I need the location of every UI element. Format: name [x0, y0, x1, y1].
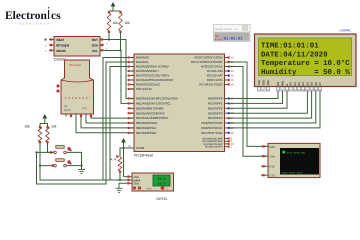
svg-text:D0: D0: [290, 82, 293, 86]
svg-text:35: 35: [130, 106, 134, 110]
svg-text:10k: 10k: [113, 21, 119, 25]
svg-text:23: 23: [231, 69, 235, 73]
wire SD pin to RB6: [81, 117, 128, 128]
DS3231 right pin stubs: [100, 37, 108, 52]
svg-text:25: 25: [231, 78, 235, 82]
svg-text:33: 33: [130, 97, 134, 101]
svg-text:RC2/CCP1/P1A: RC2/CCP1/P1A: [201, 65, 222, 69]
wire SD pin to RB4: [91, 117, 128, 119]
svg-text:39: 39: [130, 126, 134, 130]
svg-text:RC5/D+/VP: RC5/D+/VP: [207, 74, 223, 78]
svg-text:RA0/AN0: RA0/AN0: [136, 56, 149, 60]
microcontroller U1 PIC18F4550: [134, 54, 225, 158]
svg-text:01:01:01: 01:01:01: [224, 37, 244, 42]
svg-text:D6: D6: [315, 82, 318, 86]
svg-text:TIME:01:01:01: TIME:01:01:01: [261, 43, 319, 51]
svg-text:RA1/AN1: RA1/AN1: [136, 60, 149, 64]
wire DHT data to RA0: [103, 58, 128, 182]
svg-text:RA6/OSC2/CLKO: RA6/OSC2/CLKO: [136, 83, 161, 87]
wire button1 left to loop: [35, 151, 53, 153]
svg-text:RD4/SPP4: RD4/SPP4: [208, 116, 223, 120]
power +5V DHT: [121, 138, 126, 145]
svg-text:RA5/AN4/SS/LVDIN/C2OUT: RA5/AN4/SS/LVDIN/C2OUT: [136, 78, 174, 82]
svg-text:RC1/T1OSI/CCP2/UOE: RC1/T1OSI/CCP2/UOE: [191, 60, 223, 64]
svg-text:RE3/MCLR/VPP: RE3/MCLR/VPP: [205, 146, 223, 149]
svg-text:CTS: CTS: [270, 174, 275, 177]
svg-text:40: 40: [130, 131, 134, 135]
svg-text:30: 30: [231, 131, 235, 135]
svg-text:D4: D4: [306, 82, 309, 86]
svg-text:RD6/SPP6/P1C: RD6/SPP6/P1C: [201, 126, 223, 130]
svg-text:Humidity = 50.0 %: Humidity = 50.0 %: [261, 68, 350, 77]
wire button1 loop to RA1: [37, 62, 129, 184]
wire RST net to RB0: [104, 38, 128, 98]
power +5V top: [111, 2, 116, 9]
wire R1 bottom to RST net: [108, 31, 110, 40]
svg-text:RD5/SPP5/P1B: RD5/SPP5/P1B: [201, 121, 222, 125]
svg-text:Electron: Electron: [5, 10, 48, 22]
svg-text:24: 24: [231, 74, 235, 78]
svg-text:PIC18F4550: PIC18F4550: [134, 154, 153, 158]
wire LCD RS to RD0: [229, 91, 278, 99]
svg-text:Temperature = 10.0°C: Temperature = 10.0°C: [261, 59, 350, 68]
svg-text:VUSB: VUSB: [136, 146, 144, 150]
LCD LM044L display: [255, 34, 357, 87]
SD card activity LEDs: [57, 85, 60, 93]
svg-text:RTS: RTS: [270, 166, 275, 169]
wire R5 to DATA net: [120, 171, 127, 180]
wire LCD D6 to RD5: [229, 91, 316, 123]
svg-text:14: 14: [130, 83, 134, 87]
svg-text:DEVELOPER: DEVELOPER: [19, 22, 51, 26]
svg-text:10.0: 10.0: [157, 182, 165, 187]
wire LCD D5 to RD4: [229, 91, 312, 118]
svg-text:cs: cs: [51, 10, 61, 22]
svg-text:RC6/TX/CK: RC6/TX/CK: [207, 78, 223, 82]
push button S2: [51, 159, 71, 167]
wire power to R3 R4: [40, 121, 48, 127]
wire SD pin to RB7: [76, 117, 128, 133]
svg-text:RB7/KBI3/PGD: RB7/KBI3/PGD: [136, 131, 157, 135]
svg-text:RD3/SPP3: RD3/SPP3: [208, 111, 223, 115]
SD card J1: [61, 60, 94, 114]
svg-text:RA3/AN3/VREF+: RA3/AN3/VREF+: [136, 69, 159, 73]
wire SCL net to RB1: [104, 49, 128, 103]
svg-text:RST: RST: [92, 38, 98, 42]
LCD LM044L label: [340, 29, 352, 33]
DS3231 left pin stubs: [45, 38, 54, 52]
svg-text:RB6/KBI2/PGC: RB6/KBI2/PGC: [136, 126, 157, 130]
svg-text:10k: 10k: [125, 21, 131, 25]
wire SD pin to RB5: [86, 117, 128, 124]
svg-text:R568X PR08X-2N48X: R568X PR08X-2N48X: [282, 171, 304, 174]
wire RC1 to terminal RXD: [229, 62, 268, 146]
resistor R1 10k: [107, 11, 118, 33]
svg-text:RA2/AN2/VREF-/CVREF: RA2/AN2/VREF-/CVREF: [136, 65, 170, 69]
svg-text:RB3/AN9/CCP2/VPO: RB3/AN9/CCP2/VPO: [136, 111, 165, 115]
svg-text:36: 36: [130, 111, 134, 115]
svg-text:4.7k: 4.7k: [111, 158, 117, 162]
svg-text:VDD: VDD: [263, 80, 266, 86]
svg-text:VEE: VEE: [267, 80, 270, 85]
wire R2 bottom to SCL net: [120, 31, 122, 51]
popup window DS3231 clock: [214, 25, 251, 42]
DHT pin stubs: [127, 176, 132, 185]
wire LCD E to RD2: [229, 91, 287, 108]
svg-text:SD Card: SD Card: [69, 63, 81, 67]
svg-text:RS: RS: [277, 82, 280, 86]
RTC U2 DS3231: [54, 37, 100, 62]
svg-text:D7: D7: [319, 82, 322, 86]
svg-text:RC4/D-/VM: RC4/D-/VM: [207, 69, 223, 73]
PIC right pin stubs and numbers: [225, 56, 235, 149]
svg-text:RC0/T1OSO/T13CKI: RC0/T1OSO/T13CKI: [194, 56, 222, 60]
power +5V buttons: [42, 114, 47, 121]
svg-text:RW: RW: [282, 81, 285, 86]
svg-text:GND: GND: [134, 183, 140, 186]
wire power to DHT VDD and R5: [116, 145, 127, 177]
sensor DHT22: [132, 173, 174, 201]
svg-text:RD0/SPP0: RD0/SPP0: [208, 97, 223, 101]
svg-text:D5: D5: [311, 82, 314, 86]
wire DHT GND to ground: [119, 183, 127, 185]
svg-text:VBAT: VBAT: [56, 38, 64, 42]
svg-text:LM044L: LM044L: [340, 29, 352, 33]
svg-text:D1: D1: [294, 82, 297, 86]
svg-text:RB1/AN10/INT1/SCK/SCL: RB1/AN10/INT1/SCK/SCL: [136, 102, 172, 106]
svg-text:RB0/AN12/INT0/FLT0/SDI/SDA: RB0/AN12/INT0/FLT0/SDI/SDA: [136, 97, 178, 101]
resistor R2 10k: [119, 11, 131, 33]
svg-text:26: 26: [231, 83, 235, 87]
svg-text:RD7/SPP7/P1D: RD7/SPP7/P1D: [201, 131, 223, 135]
svg-text:50.0: 50.0: [157, 177, 165, 182]
svg-text:E: E: [286, 84, 289, 86]
wire LCD RW to RD1: [229, 91, 283, 103]
wire LCD D4 to RD3: [229, 91, 307, 113]
svg-text:D3: D3: [302, 82, 305, 86]
svg-text:37: 37: [130, 116, 134, 120]
wire buttons to ground: [66, 152, 82, 166]
svg-text:DHT22: DHT22: [157, 197, 168, 201]
svg-text:D2: D2: [298, 82, 301, 86]
svg-text:RXD: RXD: [270, 146, 276, 149]
push button S1: [54, 146, 72, 154]
resistor R5 4.7k: [111, 157, 122, 173]
svg-text:RD2/SPP2: RD2/SPP2: [208, 106, 223, 110]
svg-text:SCL: SCL: [92, 49, 98, 53]
svg-text:CLK: CLK: [82, 107, 87, 110]
svg-text:01/01: 01/01: [215, 38, 223, 41]
logo Electronics Developer: [5, 7, 61, 25]
svg-text:38: 38: [130, 121, 134, 125]
resistor R4 10k: [46, 125, 57, 144]
SD card pin stubs: [66, 114, 92, 117]
svg-text:RB2/AN8/INT2/VMO: RB2/AN8/INT2/VMO: [136, 106, 164, 110]
svg-text:ST32_NT6B_6HB: ST32_NT6B_6HB: [287, 152, 306, 155]
svg-text:RA4/T0CKI/C1OUT/RCV: RA4/T0CKI/C1OUT/RCV: [136, 74, 169, 78]
svg-text:CS: CS: [64, 105, 68, 108]
svg-text:34: 34: [130, 101, 134, 105]
ground buttons: [78, 167, 85, 174]
svg-text:%RH: %RH: [146, 187, 152, 190]
svg-text:C: C: [167, 187, 169, 190]
svg-text:OSC1/CLKI: OSC1/CLKI: [136, 87, 152, 91]
LCD pin labels and numbers: [257, 80, 322, 92]
svg-text:10k: 10k: [25, 125, 31, 129]
wire R4 to button1: [48, 143, 54, 154]
wire R3 to button2: [39, 143, 54, 167]
svg-text:INT/SQW: INT/SQW: [56, 43, 69, 47]
resistor R3 10k: [25, 125, 42, 144]
svg-text:TXD: TXD: [270, 156, 275, 159]
wire RC2 to terminal TXD: [229, 67, 268, 157]
PIC left pin stubs and numbers: [123, 56, 134, 149]
ground DHT: [116, 185, 123, 192]
svg-text:DO DI: DO DI: [64, 109, 71, 112]
svg-text:DS3231 CLOCK - U1: DS3231 CLOCK - U1: [215, 28, 238, 31]
svg-text:SDA: SDA: [91, 43, 98, 47]
wire button2 loop to RA2: [40, 67, 128, 181]
wire power to pullups: [109, 9, 121, 13]
virtual terminal VT1: [268, 143, 320, 177]
svg-text:32KHZ: 32KHZ: [56, 49, 66, 53]
svg-text:13: 13: [130, 87, 134, 91]
svg-text:RB5/KBI1/PGM: RB5/KBI1/PGM: [136, 121, 157, 125]
svg-text:DATE:04/11/2020: DATE:04/11/2020: [261, 50, 328, 59]
svg-text:15: 15: [231, 56, 235, 60]
wire LCD D7 to RD6: [229, 91, 320, 128]
svg-text:10k: 10k: [51, 125, 57, 129]
svg-text:RC7/RX/DT/SDO: RC7/RX/DT/SDO: [199, 83, 223, 87]
svg-text:RB4/AN11/KBI0/CSSPP: RB4/AN11/KBI0/CSSPP: [136, 116, 168, 120]
terminal pin stubs: [261, 145, 268, 176]
svg-text:RD1/SPP1: RD1/SPP1: [208, 102, 223, 106]
svg-text:VSS: VSS: [258, 80, 261, 85]
